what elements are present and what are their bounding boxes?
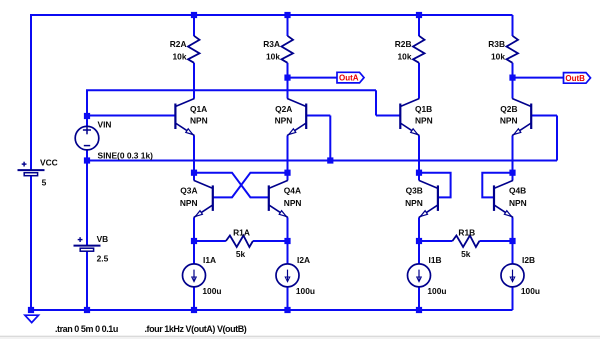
svg-text:10k: 10k xyxy=(398,52,412,62)
wire VIN top to y90 corner xyxy=(86,90,88,116)
wire crosscouple Q4Acol to Q3Abase xyxy=(213,173,288,198)
svg-text:5k: 5k xyxy=(236,249,246,259)
voltage source VIN xyxy=(75,126,99,150)
wire R3A bottom lead xyxy=(287,63,289,78)
wire node OutA to Q2A collector xyxy=(287,78,289,99)
wire Q2A base loop horizontal xyxy=(306,115,330,117)
current source I2A xyxy=(276,264,299,287)
net flag OutA xyxy=(337,72,364,83)
net flag OutB xyxy=(564,73,591,84)
svg-text:NPN: NPN xyxy=(415,116,433,126)
resistor R1B xyxy=(452,236,479,248)
svg-text:NPN: NPN xyxy=(500,116,518,126)
wire Q3B diode loop xyxy=(419,173,451,198)
svg-text:10k: 10k xyxy=(266,52,280,62)
junction Q1A emitter Q3A collector xyxy=(191,170,197,176)
junction I1A on rail xyxy=(191,307,197,313)
wire Q2B emitter to node B2 xyxy=(512,136,514,173)
wire Q4B collector stub xyxy=(512,173,514,181)
battery VB xyxy=(74,237,101,251)
svg-text:.four 1kHz V(outA) V(outB): .four 1kHz V(outA) V(outB) xyxy=(145,324,247,334)
wire Q1A base lead xyxy=(87,115,175,117)
svg-text:5k: 5k xyxy=(461,249,471,259)
wire VCC top rail xyxy=(31,14,513,16)
wire VIN upper lead xyxy=(86,116,88,128)
resistor R2A xyxy=(188,36,200,63)
junction node OutA xyxy=(284,75,290,81)
svg-text:I2A: I2A xyxy=(297,255,310,265)
resistor R3B xyxy=(507,36,519,63)
wire VIN lower lead xyxy=(86,149,88,161)
svg-text:Q2B: Q2B xyxy=(500,104,517,114)
junction node OutB xyxy=(509,75,515,81)
wire R3A top lead xyxy=(287,15,289,36)
transistor Q2B xyxy=(512,99,531,136)
svg-text:NPN: NPN xyxy=(284,198,302,208)
svg-text:VCC: VCC xyxy=(40,157,58,167)
junction top rail R3A xyxy=(284,12,290,18)
wire Q4B emitter to R1B node xyxy=(512,217,514,241)
wire I2B bottom lead xyxy=(512,287,514,310)
svg-text:5: 5 xyxy=(42,178,47,188)
svg-text:I1B: I1B xyxy=(429,255,442,265)
wire OutA net to flag xyxy=(288,77,338,79)
resistor R1A xyxy=(226,236,253,248)
junction VB minus on rail xyxy=(84,307,90,313)
wire Q1A emitter to node A1 xyxy=(193,136,195,173)
wire node OutB to Q2B collector xyxy=(512,78,514,99)
wire R2A bottom lead xyxy=(193,63,195,99)
wire R2A top lead xyxy=(193,15,195,36)
junction R1A right node xyxy=(284,238,290,244)
junction R1B right node xyxy=(509,238,515,244)
wire R1B left lead xyxy=(419,240,452,242)
wire Q1B base drop xyxy=(375,90,377,115)
svg-text:R2A: R2A xyxy=(170,39,187,49)
svg-text:.tran 0 5m 0 0.1u: .tran 0 5m 0 0.1u xyxy=(55,324,118,334)
wire crosscouple Q3Acol to Q4Abase xyxy=(194,173,269,198)
transistor Q3B xyxy=(419,180,438,217)
transistor Q4B xyxy=(494,180,513,217)
junction Q1B emitter Q3B collector xyxy=(416,170,422,176)
svg-text:NPN: NPN xyxy=(275,116,293,126)
ground xyxy=(25,315,39,322)
junction Q2A base on SINE net xyxy=(327,157,333,163)
junction VIN plus node xyxy=(84,113,90,119)
svg-text:Q3A: Q3A xyxy=(180,186,197,196)
svg-text:R1A: R1A xyxy=(233,228,250,238)
wire Q2B base loop drop xyxy=(556,116,558,161)
wire R1A left lead xyxy=(194,240,226,242)
wire Q4B diode loop xyxy=(482,173,512,198)
svg-text:Q4B: Q4B xyxy=(509,186,526,196)
wire VB lower lead xyxy=(86,251,88,310)
wire Q4A emitter to R1A node xyxy=(287,217,289,241)
transistor Q1B xyxy=(400,99,419,136)
svg-text:100u: 100u xyxy=(296,286,315,296)
junction R1A left node xyxy=(191,238,197,244)
wire R3B top lead xyxy=(512,15,514,36)
window bottom edge xyxy=(0,336,600,339)
wire OutB net to flag xyxy=(513,77,564,79)
svg-text:100u: 100u xyxy=(202,286,221,296)
svg-text:10k: 10k xyxy=(491,52,505,62)
svg-text:Q4A: Q4A xyxy=(284,186,301,196)
svg-text:10k: 10k xyxy=(173,52,187,62)
wire I2B top lead xyxy=(512,241,514,264)
svg-text:R2B: R2B xyxy=(395,39,412,49)
wire ground bottom rail xyxy=(31,309,513,311)
wire I2A top lead xyxy=(287,241,289,264)
svg-text:Q3B: Q3B xyxy=(406,186,423,196)
wire R2B top lead xyxy=(418,15,420,36)
svg-text:OutB: OutB xyxy=(565,74,585,83)
wire Q2B base loop horizontal xyxy=(531,115,557,117)
wire I1A bottom lead xyxy=(193,287,195,310)
junction ground node xyxy=(28,307,34,313)
wire Q3A emitter to R1A node xyxy=(193,217,195,241)
wire R3B bottom lead xyxy=(512,63,514,78)
svg-text:100u: 100u xyxy=(521,286,540,296)
wire Q1B emitter to node B1 xyxy=(418,136,420,173)
battery VCC xyxy=(18,162,45,176)
junction top rail R2B xyxy=(416,12,422,18)
wire I1B bottom lead xyxy=(418,287,420,310)
wire Q4A collector stub xyxy=(287,173,289,181)
wire Q1B base lead xyxy=(376,115,400,117)
wire VCC left rail lower xyxy=(30,176,32,310)
svg-text:NPN: NPN xyxy=(180,198,198,208)
wire I2A bottom lead xyxy=(287,287,289,310)
svg-text:Q1A: Q1A xyxy=(190,104,207,114)
junction top rail R2A xyxy=(191,12,197,18)
svg-text:R1B: R1B xyxy=(458,228,475,238)
svg-text:NPN: NPN xyxy=(509,198,527,208)
svg-text:Q2A: Q2A xyxy=(275,104,292,114)
junction I1B on rail xyxy=(416,307,422,313)
wire y90 horizontal to Q1B base column xyxy=(86,89,376,91)
wire R1B right lead xyxy=(479,240,512,242)
wire VCC left rail upper xyxy=(30,14,32,170)
svg-text:OutA: OutA xyxy=(339,74,359,83)
wire SINE net horizontal xyxy=(87,160,557,162)
svg-text:I1A: I1A xyxy=(203,255,216,265)
transistor Q2A xyxy=(287,99,306,136)
svg-text:2.5: 2.5 xyxy=(97,253,109,263)
wire Q3B collector stub xyxy=(418,173,420,181)
wire Q2A base loop drop xyxy=(329,116,331,161)
current source I1A xyxy=(183,264,206,287)
wire R1A right lead xyxy=(253,240,288,242)
wire Q2A emitter to node A2 xyxy=(287,136,289,173)
svg-text:SINE(0 0.3 1k): SINE(0 0.3 1k) xyxy=(98,151,154,161)
junction SINE node at VIN xyxy=(84,157,90,163)
svg-text:100u: 100u xyxy=(427,286,446,296)
wire Q3A collector stub xyxy=(193,173,195,181)
svg-text:Q1B: Q1B xyxy=(415,104,432,114)
svg-text:VB: VB xyxy=(97,234,109,244)
junction R1B left node xyxy=(416,238,422,244)
svg-text:NPN: NPN xyxy=(405,198,423,208)
resistor R3A xyxy=(282,36,294,63)
svg-text:R3A: R3A xyxy=(263,39,280,49)
svg-text:VIN: VIN xyxy=(98,120,112,130)
transistor Q4A xyxy=(269,180,288,217)
junction Q2B emitter Q4B collector xyxy=(509,170,515,176)
junction I2A on rail xyxy=(284,307,290,313)
svg-text:R3B: R3B xyxy=(488,39,505,49)
transistor Q1A xyxy=(175,99,194,136)
resistor R2B xyxy=(413,36,425,63)
wire R2B bottom lead xyxy=(418,63,420,99)
current source I2B xyxy=(501,264,524,287)
wire Q3B emitter to R1B node xyxy=(418,217,420,241)
junction Q2A emitter Q4A collector xyxy=(284,170,290,176)
svg-text:NPN: NPN xyxy=(190,116,208,126)
current source I1B xyxy=(408,264,431,287)
wire VB upper lead xyxy=(86,161,88,246)
wire I1B top lead xyxy=(418,241,420,264)
wire I1A top lead xyxy=(193,241,195,264)
transistor Q3A xyxy=(194,180,213,217)
svg-text:I2B: I2B xyxy=(522,255,535,265)
